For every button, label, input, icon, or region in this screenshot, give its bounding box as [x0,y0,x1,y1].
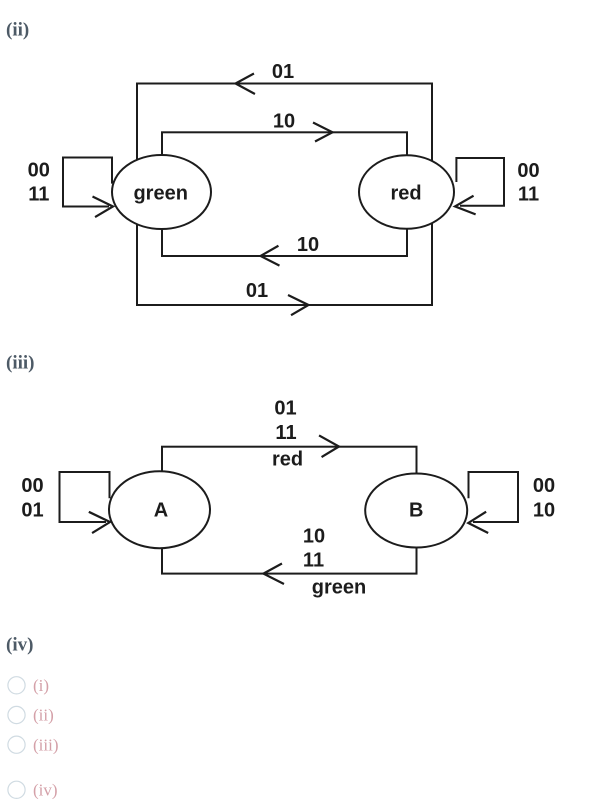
svg-text:11: 11 [303,550,324,572]
arrowhead left on bottom wire FSM2 [263,564,283,584]
arrowhead into B from self-loop [468,512,487,532]
state A (ellipse) [109,471,210,548]
self-loop square at state B [469,472,519,522]
svg-text:B: B [409,500,423,522]
svg-text:00: 00 [517,160,539,182]
svg-text:green: green [312,577,366,599]
radio option (ii) [8,706,25,723]
state B (ellipse) [365,474,467,548]
svg-text:(ii): (ii) [6,20,29,41]
state green (ellipse) [112,155,211,229]
wire inner loop rectangle FSM1 (transitions labelled 10) [162,132,407,256]
svg-text:(iv): (iv) [33,781,58,800]
self-loop square at state A [60,472,110,522]
svg-text:00: 00 [533,475,555,497]
svg-text:10: 10 [297,234,319,256]
wire outer loop rectangle FSM1 (transitions labelled 01) [137,84,432,306]
arrowhead into A from self-loop [90,512,110,532]
svg-text:11: 11 [275,422,296,444]
radio option (iv) [8,781,25,798]
svg-text:01: 01 [246,280,268,302]
svg-text:(i): (i) [33,676,49,695]
arrowhead into green from self-loop [94,197,114,217]
svg-text:10: 10 [303,525,325,547]
self-loop square at state red [456,158,504,206]
svg-text:01: 01 [21,499,43,521]
svg-text:00: 00 [21,475,43,497]
svg-text:11: 11 [28,184,49,206]
arrowhead right on top wire FSM2 [320,436,339,457]
arrowhead left on top outer wire [236,74,255,94]
svg-text:11: 11 [518,184,539,206]
state red (ellipse) [359,155,454,229]
svg-text:red: red [272,449,303,471]
svg-text:red: red [390,183,421,205]
svg-text:(iv): (iv) [6,635,33,656]
svg-text:00: 00 [28,160,50,182]
wire loop rectangle FSM2 [162,447,417,574]
svg-text:10: 10 [533,499,555,521]
arrowhead into red from self-loop [455,196,475,214]
arrowhead right on top inner wire [314,123,333,141]
svg-text:(iii): (iii) [33,735,59,754]
svg-text:01: 01 [272,61,294,83]
radio option (iii) [8,736,25,753]
svg-text:A: A [154,500,168,522]
self-loop square at state green [63,158,112,207]
radio option (i) [8,677,25,694]
svg-text:(ii): (ii) [33,706,54,725]
svg-text:10: 10 [273,110,295,132]
svg-text:01: 01 [274,398,296,420]
svg-text:green: green [133,183,187,205]
arrowhead right on bottom outer wire [289,296,309,315]
arrowhead left on bottom inner wire [261,246,279,265]
svg-text:(iii): (iii) [6,353,35,374]
